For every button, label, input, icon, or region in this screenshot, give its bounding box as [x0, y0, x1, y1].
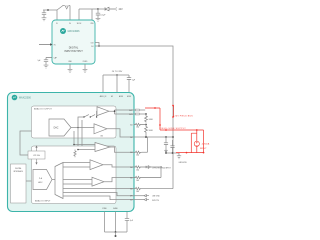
wire loopback	[20, 131, 32, 155]
wire gnd rail	[166, 152, 179, 154]
ADC U5	[33, 170, 52, 190]
svg-text:ANALOG INPUT: ANALOG INPUT	[35, 199, 51, 202]
ground	[44, 65, 49, 68]
wire PGND down	[104, 212, 106, 233]
block LPF	[28, 151, 45, 159]
wire GND pin down	[69, 64, 71, 69]
resistor R2 horizontal	[134, 123, 147, 125]
wire fb vertical 3	[82, 120, 90, 163]
diode D1	[98, 8, 105, 10]
ground	[68, 69, 73, 72]
wire supply rail U2	[103, 75, 129, 93]
svg-text:MAX14906: MAX14906	[68, 30, 80, 33]
red node g	[165, 129, 167, 131]
node gnd bus	[115, 231, 117, 233]
ground field	[177, 153, 181, 159]
capacitor C4 1uF	[127, 78, 131, 93]
svg-text:INTERFACE: INTERFACE	[13, 170, 23, 173]
block analog output	[32, 106, 117, 138]
op-amp U9	[92, 177, 104, 186]
svg-text:24 TO 28V: 24 TO 28V	[112, 71, 123, 73]
op-amp U7	[95, 143, 110, 152]
red node e	[186, 152, 188, 154]
svg-text:HV: HV	[111, 96, 113, 98]
switch SW2	[84, 111, 97, 117]
resistor R7 horizontal	[134, 176, 162, 178]
node DOI	[98, 45, 100, 47]
wire DAC out	[71, 127, 94, 129]
op-amp U3	[97, 107, 109, 116]
red node d	[196, 129, 198, 131]
node tvs	[160, 166, 162, 168]
resistor R8 horizontal	[134, 187, 174, 189]
wire interface	[26, 180, 32, 182]
wire U9 out	[104, 178, 134, 182]
svg-text:INPUT/OUTPUT: INPUT/OUTPUT	[64, 50, 83, 53]
svg-text:DIGITAL: DIGITAL	[15, 167, 21, 170]
MUX U6	[55, 163, 63, 199]
node fb	[77, 127, 79, 129]
wire R7 up	[151, 167, 161, 178]
wire mux ch4	[63, 188, 134, 190]
svg-text:LPF 50k: LPF 50k	[33, 155, 40, 157]
resistor R1	[145, 114, 148, 123]
node gnd b	[172, 152, 174, 154]
wire R5 to tvs	[142, 137, 148, 152]
arrow LPF up	[36, 148, 38, 152]
ground arrow	[65, 6, 68, 9]
node divider mid	[145, 124, 147, 126]
node 24V input	[115, 7, 118, 10]
red node c	[159, 124, 161, 126]
svg-text:VL: VL	[56, 23, 58, 25]
wire fb vertical 1	[73, 131, 75, 145]
svg-text:1µF: 1µF	[38, 60, 41, 62]
diode D3	[134, 195, 145, 197]
ground	[42, 18, 47, 21]
logo U1	[60, 28, 66, 34]
svg-text:LIM GND: LIM GND	[152, 196, 160, 198]
wire ADC to MUX	[52, 179, 55, 181]
wire to switch	[78, 117, 84, 128]
resistor R5 horizontal	[134, 151, 142, 153]
ground main	[115, 232, 117, 235]
red bracket 24v bus	[172, 105, 174, 107]
ferrite FB1	[134, 109, 146, 111]
svg-text:MAX22000: MAX22000	[19, 97, 31, 100]
wire PGND pin down	[84, 64, 86, 69]
node rail c	[172, 136, 174, 138]
logo U2	[12, 95, 18, 101]
sensor 4-20mA	[194, 141, 199, 146]
resistor R3	[145, 125, 148, 134]
node rail junction	[47, 9, 49, 11]
node divider top	[145, 113, 147, 115]
svg-text:0.1µF: 0.1µF	[101, 15, 107, 17]
ground	[83, 69, 88, 72]
capacitor C7	[125, 212, 129, 233]
DAC U2a	[49, 119, 71, 136]
wire mux ch6	[63, 196, 134, 200]
svg-text:4-20mA: 4-20mA	[202, 142, 210, 145]
node supply	[116, 74, 118, 76]
wire VL pin	[56, 10, 58, 20]
wire mux ch5	[63, 193, 134, 196]
wire VDD rail	[79, 9, 98, 20]
svg-text:(PROTECTED) INPUT: (PROTECTED) INPUT	[153, 168, 172, 170]
capacitor C3	[44, 58, 52, 65]
svg-text:DAC: DAC	[54, 127, 59, 130]
resistor R9 pga	[74, 150, 76, 158]
capacitor C1	[42, 10, 46, 18]
wire DO to field	[95, 46, 173, 189]
capacitor C6	[170, 140, 174, 153]
wire DOI stub	[95, 43, 99, 47]
svg-text:INPUTS: INPUTS	[152, 200, 159, 202]
wire U8 in	[63, 163, 90, 167]
wire VL top rail	[43, 9, 57, 11]
wire U7 in	[74, 145, 95, 150]
wire gnd bus	[105, 231, 128, 233]
node rail a	[145, 136, 147, 138]
resistor R6 horizontal	[134, 166, 147, 168]
svg-text:ADC: ADC	[38, 181, 43, 184]
node VDD junction	[97, 8, 99, 10]
svg-text:24V FIELD BUS: 24V FIELD BUS	[175, 116, 194, 118]
red node a	[154, 107, 156, 109]
red overlay: wire AO stub	[145, 108, 204, 153]
wire U4 out	[107, 129, 134, 137]
wire field rail	[134, 136, 174, 138]
node divider bottom	[145, 136, 147, 138]
red node f	[203, 152, 205, 154]
pin labels right edge	[129, 109, 133, 202]
input arrow IN	[39, 44, 50, 46]
ground	[96, 18, 101, 21]
ferrite FB2	[134, 113, 147, 115]
wire U8 out	[103, 165, 134, 167]
wire AGND down	[115, 212, 117, 233]
svg-text:FIELD-SIDE SUPPLY: FIELD-SIDE SUPPLY	[160, 128, 187, 130]
diode D4	[134, 199, 145, 201]
capacitor C2 0.1uF	[96, 9, 100, 18]
arrow LPF down	[36, 159, 38, 163]
node out	[114, 110, 116, 112]
wire U3 out	[109, 110, 134, 114]
wire divider to rail	[145, 133, 147, 137]
node rail b	[165, 136, 167, 138]
svg-text:ANALOG OUTPUT: ANALOG OUTPUT	[34, 108, 53, 111]
arrow cap branch	[165, 150, 168, 153]
op-amp U4	[94, 124, 107, 134]
node gnd a	[165, 152, 167, 154]
switch SW1	[57, 6, 70, 21]
block analog input	[32, 146, 117, 204]
svg-text:24V: 24V	[119, 9, 124, 11]
op-amp U8	[90, 160, 103, 170]
capacitor C5	[164, 137, 168, 153]
op chip U1 MAX14906 digital IO	[52, 20, 95, 64]
op chip U2 MAX22000 analog IO	[8, 93, 135, 212]
wire U9 in	[63, 180, 92, 185]
svg-text:INPUT: INPUT	[200, 148, 207, 150]
wire fb vertical 2	[77, 128, 79, 150]
block digital interface	[11, 164, 27, 203]
svg-text:GND/VSS: GND/VSS	[179, 162, 188, 164]
tvs D2	[146, 166, 151, 169]
wire U7 out	[110, 147, 134, 152]
